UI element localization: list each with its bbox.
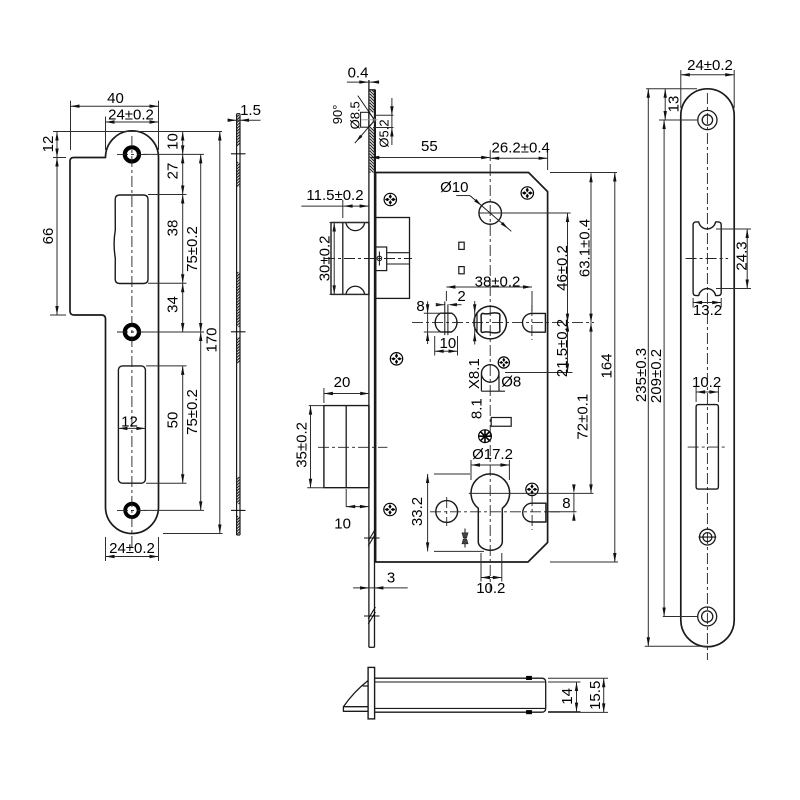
latch bolt head (bottom view) xyxy=(343,681,368,712)
faceplate centerline xyxy=(706,93,708,660)
svg-text:50: 50 xyxy=(164,412,181,429)
dim 11.5±0.2 (latch projection) xyxy=(342,200,344,218)
dim 66 (left view) xyxy=(50,314,66,316)
svg-text:15.5: 15.5 xyxy=(587,681,604,710)
strike plate screw hole top xyxy=(125,147,139,161)
svg-text:75±0.2: 75±0.2 xyxy=(184,389,201,435)
dim 24.3 (right view) xyxy=(716,228,751,230)
right hub lower xyxy=(523,503,546,522)
svg-text:3: 3 xyxy=(387,570,395,587)
dim 75±0.2 upper (left view) xyxy=(200,154,202,332)
dim 12 (left view) xyxy=(53,131,120,133)
faceplate side strip (middle view) xyxy=(368,80,370,647)
dim 38 (chain, left view) xyxy=(182,195,184,284)
svg-text:35±0.2: 35±0.2 xyxy=(293,422,310,468)
svg-text:20: 20 xyxy=(334,374,351,391)
svg-text:26.2±0.4: 26.2±0.4 xyxy=(492,139,550,156)
dim 55 (backset) xyxy=(489,150,491,165)
strike plate edge view strip xyxy=(236,114,238,535)
svg-text:24±0.2: 24±0.2 xyxy=(108,107,154,124)
bowtie pin symbol xyxy=(464,529,466,548)
faceplate top screw hole xyxy=(698,110,717,129)
dim 35±0.2 (deadbolt height) xyxy=(309,405,324,407)
deadbolt cutout centerline xyxy=(688,446,727,448)
dim 46±0.2 xyxy=(567,213,569,323)
dim 8 (cylinder to hub) xyxy=(547,511,577,513)
screw mid-right of body xyxy=(498,357,509,368)
svg-text:Ø17.2: Ø17.2 xyxy=(472,446,513,463)
dim 14 (latch) xyxy=(548,681,581,683)
svg-text:10.2: 10.2 xyxy=(692,374,721,391)
right side dims of body: extensions xyxy=(550,172,617,174)
svg-text:38: 38 xyxy=(164,220,181,237)
screw top-left of body xyxy=(384,193,396,205)
screw top-right of body xyxy=(521,187,533,199)
dim 34 (chain, left view) xyxy=(182,283,184,332)
dim 24±0.2 (left view top) xyxy=(105,117,107,151)
dim 24±0.2 (left view bottom) xyxy=(105,537,107,561)
dim 26.2±0.4 xyxy=(490,157,547,159)
screw bottom-left of body xyxy=(384,503,396,515)
svg-text:38±0.2: 38±0.2 xyxy=(475,274,521,291)
left hub hole (8x10) xyxy=(435,313,457,332)
latch cutout centerline xyxy=(686,258,729,260)
svg-text:55: 55 xyxy=(421,138,438,155)
dim 15.5 (latch) xyxy=(548,677,608,679)
latch spring box xyxy=(376,247,387,271)
countersink hole (faceplate side) xyxy=(361,112,369,127)
slotted screw hole xyxy=(700,529,716,545)
right hub upper xyxy=(523,313,546,332)
deadbolt cutout (right view) xyxy=(696,405,718,490)
cylinder center extension xyxy=(469,492,594,494)
dim 40 (left view top) xyxy=(70,101,72,150)
dim 10.2 (cylinder stem) xyxy=(480,553,482,582)
svg-text:10: 10 xyxy=(164,133,181,150)
svg-text:24±0.2: 24±0.2 xyxy=(687,57,733,74)
faceplate break marks xyxy=(368,534,375,546)
dim 235±0.3 (right view) xyxy=(645,645,708,647)
svg-text:Ø10: Ø10 xyxy=(440,179,468,196)
dim 2 (hub offset) xyxy=(452,304,462,306)
svg-text:30±0.2: 30±0.2 xyxy=(317,236,334,282)
deadbolt (middle view) xyxy=(324,406,369,488)
spindle row horizontal centerline xyxy=(412,322,594,324)
dim 27 (chain, left view) xyxy=(182,154,184,194)
svg-text:72±0.1: 72±0.1 xyxy=(574,394,591,440)
svg-text:X8.1: X8.1 xyxy=(466,358,483,389)
strike plate screw hole middle xyxy=(125,325,139,339)
svg-text:8.1: 8.1 xyxy=(469,398,486,419)
svg-text:10: 10 xyxy=(440,335,457,352)
svg-text:21.5±0.2: 21.5±0.2 xyxy=(554,319,571,377)
body vertical centerline xyxy=(489,165,491,592)
svg-text:33.2: 33.2 xyxy=(409,497,426,526)
faceplate bottom screw hole xyxy=(698,607,717,626)
dim 1.5 (edge view) xyxy=(230,119,261,121)
svg-text:24.3: 24.3 xyxy=(733,241,750,270)
svg-text:8: 8 xyxy=(416,298,424,315)
lower-left fixing hole xyxy=(436,501,458,523)
Ø10 center extension to right xyxy=(479,212,570,214)
dim 10.2 (right view) xyxy=(695,387,697,402)
dim 13 (right view) xyxy=(646,88,697,90)
dim 3 (faceplate thickness) xyxy=(353,587,408,589)
lock faceplate outline (right view) xyxy=(681,89,734,647)
dim 21.5±0.2 xyxy=(505,372,573,374)
dim 209±0.2 (right view) xyxy=(663,616,697,618)
svg-text:66: 66 xyxy=(40,228,57,245)
edge view hole tick bottom xyxy=(231,509,246,511)
latch tail inner lines xyxy=(387,252,410,254)
hole Ø8 with slot below spindle xyxy=(481,365,499,383)
svg-text:13.2: 13.2 xyxy=(693,302,722,319)
latch tail box (inside body) xyxy=(376,218,410,299)
svg-text:14: 14 xyxy=(559,688,576,705)
edge view hatching xyxy=(237,115,239,117)
dim 75±0.2 lower (left view) xyxy=(200,332,202,510)
dim Ø17.2 xyxy=(470,460,472,480)
dim 72±0.1 xyxy=(590,323,592,494)
dim 12 deadbolt recess width xyxy=(118,427,145,429)
star screw xyxy=(479,430,492,443)
svg-text:209±0.2: 209±0.2 xyxy=(648,349,665,403)
svg-text:170: 170 xyxy=(203,327,220,352)
crosshair bottom hole xyxy=(117,509,147,511)
dim 20 (deadbolt throw) xyxy=(323,388,325,403)
svg-text:12: 12 xyxy=(40,136,57,153)
svg-text:13: 13 xyxy=(665,96,682,113)
screw bottom-right of body xyxy=(526,483,538,495)
latch bolt (middle view) xyxy=(331,223,369,295)
dim 10 (chain, left view) xyxy=(182,132,184,155)
edge view hole tick top xyxy=(231,153,246,155)
svg-text:11.5±0.2: 11.5±0.2 xyxy=(306,187,363,204)
dim 164 xyxy=(614,173,616,563)
dim 0.4 (faceplate) xyxy=(347,81,377,83)
svg-text:Ø5.2: Ø5.2 xyxy=(377,119,392,147)
small bar right of centerline xyxy=(491,418,511,427)
svg-text:46±0.2: 46±0.2 xyxy=(554,245,571,291)
countersink angle callout lines 90 / Ø8.5 xyxy=(358,96,374,120)
dim 33.2 xyxy=(434,473,470,475)
strike plate outline (left view) xyxy=(70,131,159,534)
faceplate section (bottom view) xyxy=(368,667,375,719)
svg-text:24±0.2: 24±0.2 xyxy=(109,540,155,557)
svg-text:0.4: 0.4 xyxy=(348,65,369,82)
dim 10 (deadbolt) xyxy=(345,489,347,507)
latch tail end dots xyxy=(527,676,532,679)
latch cutout (spool shape) xyxy=(693,222,721,296)
crosshair middle hole xyxy=(117,331,147,333)
Ø10 leader line xyxy=(456,195,470,197)
euro cylinder hole xyxy=(471,474,510,550)
strike plate deadbolt recess (left view) xyxy=(118,366,145,483)
strike plate screw hole bottom xyxy=(125,504,138,517)
svg-text:34: 34 xyxy=(164,296,181,313)
dim 24±0.2 (right view) xyxy=(680,70,682,108)
dim 38±0.2 (hub spacing) xyxy=(531,291,533,311)
svg-text:Ø8: Ø8 xyxy=(501,374,521,391)
dim 13.2 (right view) xyxy=(692,298,694,308)
strike plate latch recess (left view) xyxy=(114,195,148,284)
svg-text:63.1±0.4: 63.1±0.4 xyxy=(576,219,593,277)
spindle follower square hole xyxy=(474,306,507,339)
extension lines right side (left view) xyxy=(120,131,222,133)
screw mid-left of body xyxy=(390,353,402,365)
dim 8 (hub) xyxy=(427,301,429,344)
svg-text:12: 12 xyxy=(121,413,138,430)
two small square holes xyxy=(459,242,464,249)
deadbolt centerline xyxy=(318,446,387,448)
dim Ø5.2 (countersink) xyxy=(374,114,393,116)
svg-text:10: 10 xyxy=(334,515,351,532)
svg-text:164: 164 xyxy=(599,353,616,378)
latch centerline xyxy=(324,258,412,260)
svg-text:2: 2 xyxy=(457,288,465,305)
svg-text:40: 40 xyxy=(107,90,124,107)
svg-text:27: 27 xyxy=(164,163,181,180)
dim 63.1±0.4 xyxy=(590,173,592,322)
hole Ø10 (body top) xyxy=(479,202,502,225)
dim 10 (hub) xyxy=(434,336,436,356)
dim 30±0.2 (latch height) xyxy=(330,222,367,224)
lock body outline (middle view) xyxy=(376,173,548,563)
edge view hole tick middle xyxy=(231,331,246,333)
svg-text:10.2: 10.2 xyxy=(476,580,505,597)
dim 50 (chain, left view) xyxy=(182,366,184,483)
strike plate vertical centerline xyxy=(131,136,133,548)
svg-text:75±0.2: 75±0.2 xyxy=(184,226,201,272)
latch tail (bottom view) xyxy=(375,678,546,712)
crosshair top hole xyxy=(117,153,147,155)
faceplate top hatched band xyxy=(369,111,372,114)
svg-text:8: 8 xyxy=(562,495,570,512)
X8.1 mini dimension xyxy=(474,301,476,345)
latch spring pin symbol xyxy=(378,252,380,266)
svg-text:Ø8.5: Ø8.5 xyxy=(348,101,363,129)
svg-text:1.5: 1.5 xyxy=(240,102,261,119)
svg-text:90°: 90° xyxy=(330,105,345,125)
dim 170 (left view) xyxy=(219,132,221,534)
